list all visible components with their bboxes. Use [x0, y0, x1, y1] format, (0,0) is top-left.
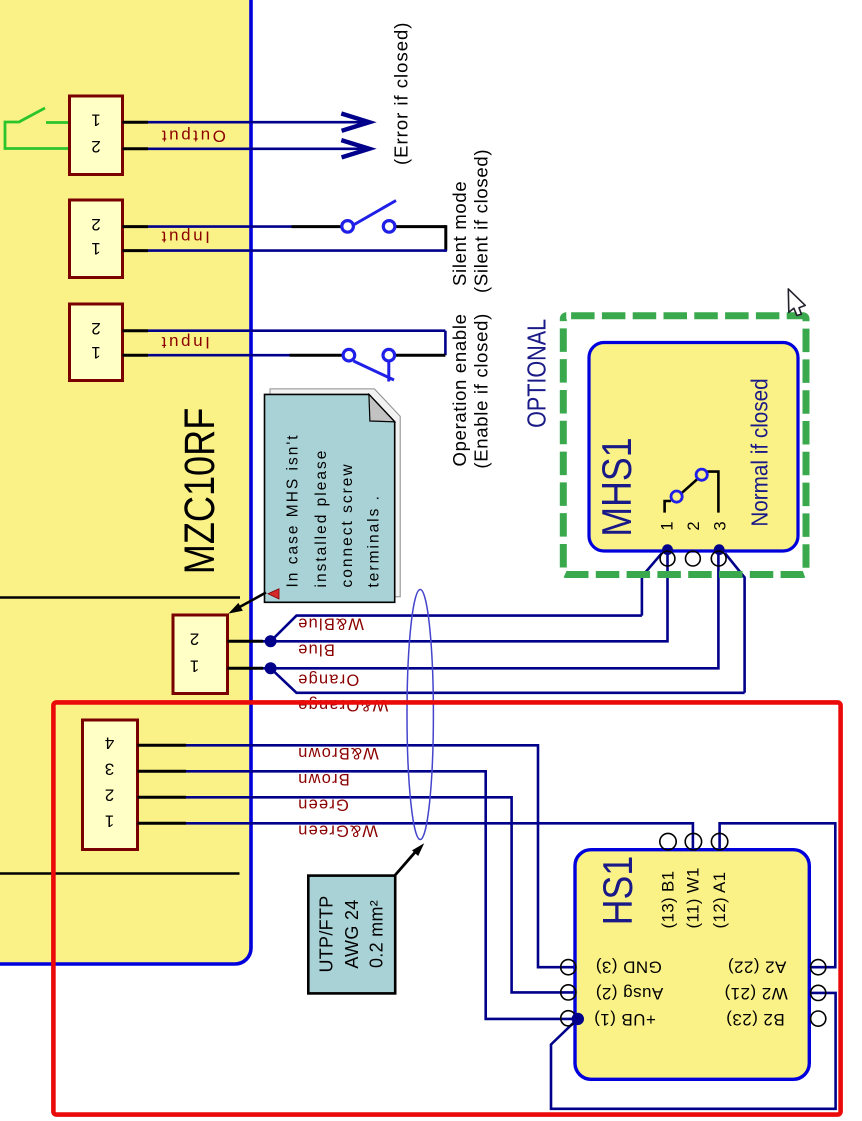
svg-text:W2 (21): W2 (21)	[724, 984, 788, 1003]
svg-text:Ausg (2): Ausg (2)	[595, 984, 663, 1003]
MHS pin numbers 1 2 3	[658, 521, 729, 530]
terminal Input X3 (operation)	[70, 304, 123, 381]
svg-text:AWG 24: AWG 24	[342, 899, 362, 968]
MZC10RF device body	[0, 0, 251, 964]
svg-text:2: 2	[91, 319, 100, 338]
svg-text:Normal if closed: Normal if closed	[746, 378, 772, 526]
HS1 block	[561, 833, 826, 1079]
net Brown to HS1 +UB	[138, 770, 187, 773]
svg-text:W&Orange: W&Orange	[297, 696, 388, 714]
svg-text:W&Green: W&Green	[297, 822, 378, 840]
MHS junction dots	[662, 544, 673, 555]
svg-text:2: 2	[190, 629, 199, 648]
svg-text:Blue: Blue	[297, 641, 335, 659]
svg-text:3: 3	[712, 521, 730, 530]
junction dot +UB	[572, 1013, 584, 1025]
cable ellipse	[407, 590, 433, 840]
wire colour labels	[297, 614, 388, 839]
net +UB to W2 link	[551, 993, 836, 1109]
svg-text:UTP/FTP: UTP/FTP	[316, 895, 336, 972]
net W&amp;Orange	[271, 668, 745, 693]
net W&amp;Brown to HS1 GND	[138, 745, 836, 1109]
svg-text:OPTIONAL: OPTIONAL	[522, 319, 551, 428]
operation enable loop	[123, 331, 446, 382]
red boundary box	[53, 702, 840, 1114]
silent switch	[353, 201, 397, 226]
MHS switch symbol	[665, 469, 719, 512]
svg-text:(12) A1: (12) A1	[710, 872, 729, 929]
net A1-A2 link	[720, 823, 836, 967]
svg-text:In case MHS isn't: In case MHS isn't	[284, 433, 301, 587]
relay contact (green)	[5, 108, 70, 149]
mouse cursor	[788, 289, 805, 316]
note shadow page	[270, 389, 400, 597]
net W&amp;Blue	[271, 616, 642, 642]
svg-text:Operation enable: Operation enable	[449, 313, 470, 466]
svg-text:A2 (22): A2 (22)	[728, 957, 787, 976]
svg-text:(Enable if closed): (Enable if closed)	[470, 313, 491, 469]
MHS1 block	[589, 343, 798, 566]
UTP cable box	[308, 876, 395, 994]
leader arrow UTP to cable	[395, 852, 415, 875]
pin numbers (terminals)	[91, 110, 199, 830]
junction dot pin1	[265, 662, 277, 674]
terminal X5 (4-pin, brown/green pairs)	[83, 720, 138, 850]
note text	[284, 433, 382, 587]
svg-text:1: 1	[658, 521, 676, 530]
svg-text:1: 1	[190, 656, 199, 675]
svg-text:Input: Input	[159, 333, 210, 352]
net Blue: 2pin terminal pin2 to MHS1 pin1	[228, 550, 745, 693]
net Orange	[228, 667, 264, 670]
net W&amp;Green to HS1 W1	[138, 822, 187, 825]
junction dot pin2	[265, 635, 277, 647]
svg-text:1: 1	[91, 343, 100, 362]
operation switch	[354, 361, 395, 380]
svg-text:1: 1	[91, 110, 100, 129]
HS1 top pin labels	[659, 867, 729, 928]
svg-text:Green: Green	[297, 796, 349, 814]
svg-text:(13) B1: (13) B1	[659, 871, 678, 929]
HS1 pin circles	[561, 833, 826, 1026]
svg-text:2: 2	[91, 215, 100, 234]
HS1 left pin labels	[594, 957, 788, 1029]
silent mode loop	[123, 201, 448, 251]
svg-text:1: 1	[91, 239, 100, 258]
svg-text:terminals .: terminals .	[366, 494, 383, 588]
note marker triangle	[268, 589, 279, 599]
internal partition line lower	[0, 872, 240, 875]
svg-text:1: 1	[105, 811, 114, 830]
svg-text:+UB (1): +UB (1)	[594, 1010, 656, 1029]
svg-text:Input: Input	[159, 227, 210, 246]
UTP text	[316, 895, 386, 972]
note sticky	[265, 394, 395, 602]
svg-text:4: 4	[105, 733, 114, 752]
svg-text:connect screw: connect screw	[339, 462, 356, 587]
svg-text:Brown: Brown	[297, 770, 350, 788]
svg-text:GND (3): GND (3)	[595, 957, 661, 976]
leader arrow note to terminal	[236, 593, 266, 610]
svg-text:installed please: installed please	[313, 449, 330, 588]
svg-text:2: 2	[91, 137, 100, 156]
svg-text:Orange: Orange	[297, 671, 359, 689]
svg-text:W&Brown: W&Brown	[297, 744, 379, 762]
svg-text:W&Blue: W&Blue	[297, 614, 364, 632]
labels	[91, 110, 388, 839]
svg-text:0.2 mm²: 0.2 mm²	[367, 900, 387, 968]
terminal Input X2 (silent)	[70, 200, 123, 278]
terminal Output X1	[70, 96, 123, 175]
MHS pin circles	[660, 551, 726, 566]
svg-text:(Error if closed): (Error if closed)	[391, 22, 412, 165]
svg-text:B2 (23): B2 (23)	[726, 1010, 785, 1029]
svg-text:Silent mode: Silent mode	[449, 181, 470, 286]
internal partition line upper	[0, 596, 240, 599]
note fold	[369, 394, 395, 421]
output wire 1	[123, 114, 370, 131]
output wire 2	[123, 140, 370, 157]
svg-text:MZC10RF: MZC10RF	[176, 408, 224, 574]
device MZC10RF main block	[0, 0, 251, 964]
svg-text:HS1: HS1	[595, 856, 641, 925]
svg-text:3: 3	[105, 759, 114, 778]
svg-text:MHS1: MHS1	[594, 437, 640, 536]
svg-text:2: 2	[105, 785, 114, 804]
annotation texts right side	[391, 22, 492, 469]
terminal function labels	[159, 126, 226, 352]
svg-text:(Silent if closed): (Silent if closed)	[470, 149, 491, 293]
net Green to HS1 Ausg	[138, 796, 187, 799]
svg-text:Output: Output	[159, 126, 226, 145]
terminal X4 (2-pin, blue pair)	[173, 615, 228, 694]
OPTIONAL dashed rect	[563, 316, 806, 575]
svg-text:2: 2	[685, 521, 703, 530]
svg-text:(11) W1: (11) W1	[684, 867, 703, 928]
